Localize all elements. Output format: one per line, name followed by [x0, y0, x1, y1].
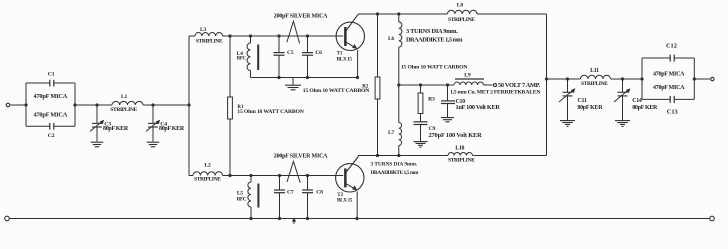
- wire bottom collector rail: [358, 155, 448, 157]
- bottom ground terminal left: [5, 216, 10, 221]
- ground arrow marker: [293, 220, 295, 224]
- wire emitter line top section: [251, 77, 358, 79]
- svg-text:STRIPLINE: STRIPLINE: [448, 17, 475, 23]
- node emitter junction top: [356, 76, 359, 79]
- inductor L1 stripline: [110, 94, 143, 113]
- ground C9: [414, 142, 428, 148]
- svg-text:C11: C11: [578, 98, 587, 104]
- svg-text:80pF KER: 80pF KER: [632, 105, 658, 111]
- svg-text:L2: L2: [205, 163, 212, 169]
- ground C4: [147, 142, 160, 147]
- resistor R1: [228, 36, 305, 176]
- inductor L3 stripline: [195, 27, 223, 44]
- pointer lambda bottom: [287, 161, 300, 182]
- inductor L10 stripline: [448, 145, 475, 163]
- svg-text:80pF KER: 80pF KER: [577, 105, 603, 111]
- node L4 top: [249, 34, 252, 37]
- svg-text:STRIPLINE: STRIPLINE: [581, 81, 608, 87]
- inductor L4 RFC: [237, 36, 259, 78]
- node emitter junction bottom: [355, 217, 358, 220]
- svg-text:L5: L5: [237, 191, 244, 197]
- wire C12C13 left vertical: [641, 58, 643, 99]
- node C5 top: [277, 34, 280, 37]
- node C7 bottom: [278, 217, 281, 220]
- capacitor C9: [414, 114, 483, 142]
- svg-text:R3: R3: [428, 96, 435, 102]
- wire T2 emitter down: [356, 192, 358, 219]
- svg-text:C6: C6: [315, 50, 322, 56]
- node C12C13 input: [640, 77, 643, 80]
- svg-text:80pF KER: 80pF KER: [159, 126, 185, 132]
- svg-text:C5: C5: [287, 50, 294, 56]
- ground emitter top: [285, 78, 301, 90]
- svg-text:C7: C7: [287, 190, 294, 196]
- node C4 top: [151, 103, 154, 106]
- wire T2 collector up: [357, 156, 359, 157]
- svg-text:470pF MICA: 470pF MICA: [34, 112, 68, 119]
- node C12C13 output: [693, 77, 696, 80]
- svg-text:270pF 100 Volt KER: 270pF 100 Volt KER: [429, 132, 483, 139]
- node L7 bottom: [397, 154, 400, 157]
- node C8 top: [306, 174, 309, 177]
- wire L1 to node: [143, 104, 189, 106]
- node L5 top: [249, 174, 252, 177]
- ground C10: [441, 118, 454, 122]
- capacitor C6: [302, 36, 322, 78]
- node output combiner: [545, 77, 548, 80]
- svg-text:L3: L3: [200, 27, 207, 33]
- resistor R2: [375, 14, 380, 156]
- svg-text:200pF SILVER MICA: 200pF SILVER MICA: [274, 14, 328, 20]
- node L6 L7 mid: [397, 83, 400, 86]
- node input rail junction: [187, 103, 190, 106]
- node C5 bottom: [277, 76, 280, 79]
- capacitor C8: [302, 176, 323, 219]
- inductor L8 stripline: [448, 3, 478, 24]
- transistor T2 BLX15: [336, 157, 364, 204]
- node R1 top: [228, 34, 231, 37]
- svg-text:C14: C14: [632, 98, 642, 104]
- node C14 top: [621, 77, 624, 80]
- svg-text:3 TURNS DIA 9mm.: 3 TURNS DIA 9mm.: [371, 162, 418, 168]
- svg-text:STRIPLINE: STRIPLINE: [194, 177, 221, 183]
- wire to L3: [189, 35, 195, 37]
- svg-text:C12: C12: [666, 42, 677, 49]
- ground C14: [615, 121, 630, 127]
- svg-text:50 VOLT 7 AMP.: 50 VOLT 7 AMP.: [498, 82, 541, 89]
- wire to L2: [189, 175, 193, 177]
- svg-text:3 TURNS DIA 9mm.: 3 TURNS DIA 9mm.: [406, 28, 458, 35]
- input terminal: [6, 103, 10, 107]
- svg-text:L6: L6: [388, 36, 395, 42]
- svg-text:DRAADDIKTE 1,5 mm: DRAADDIKTE 1,5 mm: [371, 170, 419, 176]
- wire splitter vertical: [188, 36, 190, 176]
- node R3 top: [419, 83, 422, 86]
- node C10 top: [446, 83, 449, 86]
- svg-text:15 Ohm 10 WATT CARBON: 15 Ohm 10 WATT CARBON: [401, 64, 468, 70]
- wire L3 to T1 base: [223, 35, 344, 37]
- svg-text:470pF MICA: 470pF MICA: [653, 85, 685, 91]
- node L6 top: [397, 12, 400, 15]
- svg-text:C1: C1: [48, 71, 55, 77]
- wire T1 emitter down: [357, 50, 359, 78]
- wire L9 to supply terminal: [484, 84, 493, 86]
- svg-text:15 Ohm 10 WATT CARBON: 15 Ohm 10 WATT CARBON: [303, 88, 370, 94]
- node L5 bottom: [249, 217, 252, 220]
- pointer lambda top: [287, 21, 300, 43]
- wire C1C2 right vertical: [74, 83, 76, 126]
- node C11 top: [566, 77, 569, 80]
- node input junction: [24, 103, 27, 106]
- svg-text:L9: L9: [464, 72, 471, 78]
- output terminal: [711, 77, 714, 80]
- capacitor C10: [441, 85, 500, 117]
- resistor R3: [418, 85, 435, 114]
- capacitor C13: [642, 85, 694, 116]
- inductor L5 RFC: [237, 176, 259, 219]
- capacitor C1: [26, 71, 75, 100]
- svg-text:L11: L11: [590, 68, 599, 74]
- wire C12C13 right vertical: [693, 58, 695, 99]
- svg-text:STRIPLINE: STRIPLINE: [110, 107, 137, 113]
- node C3 top: [95, 103, 98, 106]
- svg-text:1nF 100 Volt KER: 1nF 100 Volt KER: [456, 104, 501, 111]
- node R1 bottom: [228, 174, 231, 177]
- inductor L2 stripline: [193, 163, 223, 183]
- node C7 top: [278, 174, 281, 177]
- svg-text:STRIPLINE: STRIPLINE: [448, 158, 475, 164]
- wire L2 to T2 base: [223, 175, 344, 177]
- svg-text:DRAADDIKTE 1,5 mm: DRAADDIKTE 1,5 mm: [406, 36, 463, 43]
- inductor L6: [388, 14, 402, 85]
- wire input to node: [10, 104, 26, 106]
- wire output line: [547, 78, 581, 80]
- svg-text:1,5 mm Cu. MET 2 FERRIETKRALEN: 1,5 mm Cu. MET 2 FERRIETKRALEN: [450, 90, 541, 96]
- svg-text:15 Ohm 10 WATT CARBON: 15 Ohm 10 WATT CARBON: [237, 109, 304, 115]
- svg-text:BLX 15: BLX 15: [337, 56, 353, 62]
- wire top rail: [358, 13, 448, 15]
- wire mid branch: [399, 84, 454, 86]
- inductor L7: [388, 85, 402, 156]
- inductor L9 with core: [454, 72, 484, 85]
- node R2 bottom: [376, 154, 379, 157]
- svg-text:L7: L7: [388, 130, 395, 136]
- ground C3: [91, 142, 104, 147]
- ground C11: [560, 121, 575, 127]
- capacitor C2: [26, 112, 75, 140]
- node C6 top: [306, 34, 309, 37]
- svg-text:RFC: RFC: [237, 197, 247, 202]
- wire bottom rail: [9, 218, 709, 220]
- bottom ground terminal right: [710, 216, 715, 221]
- wire top rail corner down: [546, 14, 548, 79]
- wire bottom rail corner up: [546, 79, 548, 156]
- capacitor C5: [274, 36, 294, 78]
- node C1C2 output: [73, 103, 76, 106]
- svg-text:L8: L8: [457, 3, 464, 9]
- svg-text:80pF KER: 80pF KER: [103, 126, 129, 132]
- svg-text:BLX 15: BLX 15: [337, 198, 353, 204]
- wire to C3 node: [75, 104, 112, 106]
- svg-text:470pF MICA: 470pF MICA: [34, 93, 68, 100]
- capacitor C12: [642, 42, 694, 77]
- svg-text:200pF SILVER MICA: 200pF SILVER MICA: [274, 154, 328, 160]
- node C8 bottom: [306, 217, 309, 220]
- svg-text:RFC: RFC: [237, 57, 247, 62]
- wire to output terminal: [694, 78, 710, 80]
- transistor T1 BLX15: [336, 14, 364, 62]
- node R2 top: [376, 12, 379, 15]
- node C6 bottom: [306, 76, 309, 79]
- trimmer capacitor C3: [90, 105, 129, 142]
- capacitor C7: [274, 176, 294, 219]
- svg-text:L10: L10: [455, 145, 464, 151]
- wire C1C2 left vertical: [25, 83, 27, 126]
- svg-text:STRIPLINE: STRIPLINE: [196, 38, 223, 44]
- trimmer capacitor C11: [559, 79, 603, 121]
- svg-text:470pF MICA: 470pF MICA: [653, 71, 685, 77]
- supply terminal: [494, 84, 497, 87]
- wire L11 to C12 block: [611, 78, 643, 80]
- svg-text:C2: C2: [48, 133, 55, 139]
- inductor L11 stripline: [581, 68, 611, 87]
- svg-text:C8: C8: [316, 190, 323, 196]
- svg-text:L1: L1: [121, 94, 128, 100]
- svg-text:C13: C13: [667, 109, 678, 116]
- trimmer capacitor C4: [146, 105, 185, 142]
- trimmer capacitor C14: [614, 79, 658, 121]
